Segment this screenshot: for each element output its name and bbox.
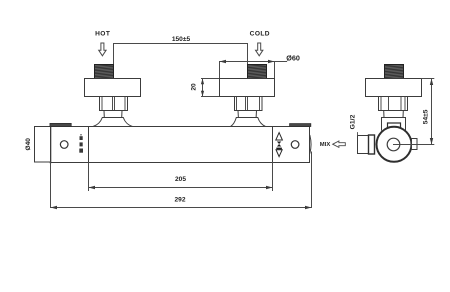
dimension Ø60 leader line — [220, 62, 287, 79]
cold inlet bell mount — [231, 118, 266, 127]
dimension 54±5 line — [431, 79, 433, 145]
dimension 205 arrowheads — [89, 186, 273, 189]
svg-text:54±5: 54±5 — [422, 109, 429, 124]
dimension text 205 — [175, 176, 186, 183]
hot flow arrow (hollow down arrow) — [99, 43, 106, 56]
mix outlet arrow (hollow left arrow) — [333, 141, 346, 147]
cold inlet union nut — [235, 97, 263, 111]
flow knob right dome — [310, 136, 311, 154]
dimension text 292 — [174, 197, 185, 204]
svg-text:Ø60: Ø60 — [286, 54, 300, 63]
side view: outlet pipe — [358, 136, 369, 154]
label COLD — [250, 30, 270, 37]
side view: right tab — [412, 139, 418, 150]
side view: top tab on body — [388, 123, 401, 128]
side view: inlet stub (hatched) — [385, 65, 404, 79]
side view: center line to dimension — [394, 144, 434, 146]
temperature knob button circle — [60, 141, 68, 149]
side view: inner cartridge circle — [387, 138, 400, 151]
temperature knob top tab — [50, 123, 71, 126]
Ø60 arrowheads — [220, 60, 275, 63]
flow knob (right) boundary — [272, 127, 274, 163]
svg-text:292: 292 — [174, 197, 185, 204]
hot inlet flange plate — [85, 79, 141, 97]
dimension text 20 (rotated) — [191, 83, 198, 91]
cold inlet eccentric stub (hatched) — [248, 65, 267, 79]
temperature scale marks on knob — [79, 134, 83, 153]
svg-text:COLD: COLD — [250, 30, 270, 37]
side view: neck — [384, 111, 404, 118]
side view: outlet collar — [369, 135, 375, 154]
side view: union nut — [379, 97, 408, 111]
label MIX — [320, 142, 331, 148]
svg-text:150±5: 150±5 — [172, 36, 191, 43]
side view: body collar — [382, 118, 406, 131]
dimension 20 line — [202, 79, 204, 97]
valve body bar — [51, 127, 310, 163]
side view: wall flange plate — [366, 79, 422, 97]
hot inlet eccentric stub (hatched) — [95, 65, 114, 79]
flow knob button circle — [291, 141, 299, 149]
cold flow arrow (hollow down arrow) — [256, 43, 263, 56]
temperature knob (left) boundary — [88, 127, 90, 163]
label HOT — [95, 30, 110, 37]
dimension 20 arrowheads — [201, 79, 204, 97]
svg-text:205: 205 — [175, 176, 186, 183]
dimension 20 extension lines — [202, 79, 220, 97]
svg-text:MIX: MIX — [320, 142, 331, 148]
dimension text Ø60 — [286, 54, 300, 63]
label G1/2 (rotated) — [349, 114, 356, 129]
hot inlet neck — [104, 111, 122, 118]
temperature knob left edge (thick) — [50, 124, 52, 163]
svg-text:HOT: HOT — [95, 30, 110, 37]
dimension 54±5 extension line (top) — [422, 78, 434, 80]
dimension 292 arrowheads — [51, 206, 312, 209]
dimension 292 line — [51, 207, 312, 209]
cold inlet neck — [238, 111, 257, 118]
hot inlet union nut — [100, 97, 128, 111]
dimension 205 line — [89, 187, 273, 189]
hot inlet bell mount — [93, 118, 133, 127]
dimension 54±5 arrowheads — [430, 79, 433, 145]
svg-text:G1/2: G1/2 — [349, 114, 356, 129]
dimension text 150±5 — [172, 36, 191, 43]
svg-text:20: 20 — [191, 83, 198, 91]
side view: main valve body circle — [377, 127, 412, 162]
G1/2 leader tick — [357, 133, 359, 136]
dimension 292 extension lines — [51, 152, 312, 208]
left end cap Ø40 — [35, 127, 51, 163]
label Ø40 (rotated) — [25, 138, 32, 151]
flow open/close symbol on knob — [276, 133, 283, 157]
dimension text 54±5 (rotated) — [422, 109, 429, 124]
flow knob top tab — [290, 124, 311, 127]
dimension 150±5 bracket — [114, 44, 248, 65]
svg-text:Ø40: Ø40 — [25, 138, 32, 151]
dimension 205 extension lines — [89, 163, 273, 191]
cold inlet flange plate — [220, 79, 275, 97]
